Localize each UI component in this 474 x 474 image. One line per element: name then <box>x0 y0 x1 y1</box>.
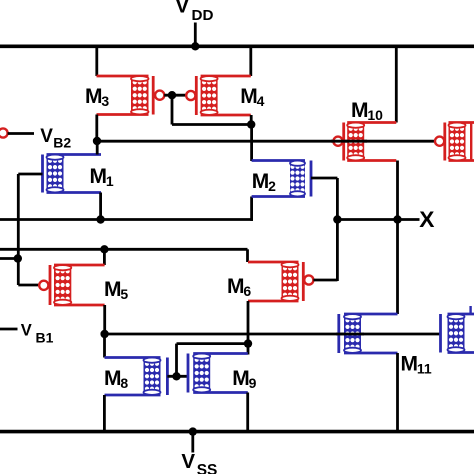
node M3/M4 gate junction <box>168 91 176 99</box>
node M5 source junction <box>100 245 108 253</box>
svg-text:M: M <box>104 367 122 390</box>
terminal V_B2 bubble <box>0 128 8 137</box>
node M6/M9 drain junction <box>244 339 252 347</box>
transistor M1 <box>43 155 102 193</box>
wire M1 gate <box>18 173 42 176</box>
svg-text:M: M <box>232 367 250 390</box>
wire V_DD rail <box>0 44 474 48</box>
wire M1 source down <box>99 193 102 220</box>
svg-text:M: M <box>227 275 245 298</box>
wire M2 gate <box>311 177 337 180</box>
label X <box>419 207 435 232</box>
label M2 <box>252 170 276 194</box>
wire gate line over M10 bubble and cylinder <box>331 140 367 143</box>
svg-text:DD: DD <box>192 7 214 24</box>
svg-text:M: M <box>104 278 122 301</box>
svg-text:4: 4 <box>257 93 265 109</box>
wire M3 source to VDD <box>95 46 98 76</box>
wire M9 source to VSS <box>246 393 249 432</box>
wire M11 source to VSS <box>396 353 399 432</box>
transistor M8 <box>105 358 168 396</box>
transistor M4 <box>186 76 251 115</box>
transistor M3 <box>97 76 165 115</box>
transistor M9 <box>188 354 248 393</box>
wire gate link up <box>175 344 178 377</box>
label M4 <box>240 85 264 109</box>
wire M3/M4 gate drop <box>171 95 174 124</box>
wire M5 source up <box>103 249 106 265</box>
svg-text:V: V <box>40 126 53 147</box>
transistor M12 <box>441 314 474 353</box>
power label V_SS <box>181 450 217 474</box>
wire V_SS rail <box>0 430 474 434</box>
label M10 <box>351 99 383 123</box>
wire M1 drain up <box>96 141 99 155</box>
wire gate link to M9 drain <box>177 342 249 345</box>
svg-text:2: 2 <box>268 178 276 194</box>
input label V_B1 <box>21 321 54 345</box>
node M3/M1 drain junction <box>93 137 101 145</box>
svg-text:9: 9 <box>249 375 257 391</box>
wire M2 source down <box>250 197 253 221</box>
wire V_SS stem <box>191 432 194 453</box>
label M8 <box>104 367 128 391</box>
svg-text:M: M <box>85 85 103 108</box>
svg-text:M: M <box>401 353 419 376</box>
wire M8 source to VSS <box>103 395 106 432</box>
svg-text:3: 3 <box>101 93 109 109</box>
wire cascode source line <box>0 248 248 251</box>
wire M5 gate link <box>18 284 39 287</box>
wire M6 gate <box>313 279 337 282</box>
wire mirror drain line to M12 gate <box>105 333 441 336</box>
node tail junction <box>96 215 104 223</box>
label M1 <box>90 165 114 189</box>
wire M10 drain down to M11 <box>396 161 399 315</box>
wire mirror line over M11 cylinder <box>336 333 364 336</box>
transistor M5 <box>39 265 104 305</box>
label M9 <box>232 367 256 391</box>
wire M4 drain to M2 drain <box>250 125 253 162</box>
svg-text:X: X <box>419 207 435 232</box>
wire M6 source drop <box>246 249 249 262</box>
svg-text:5: 5 <box>120 286 128 302</box>
svg-text:V: V <box>181 450 195 473</box>
transistor M6 <box>248 262 313 301</box>
svg-text:M: M <box>252 170 269 193</box>
svg-text:6: 6 <box>243 283 251 299</box>
node M2/M6 gate at X <box>333 215 341 223</box>
node M10 drain at X <box>393 215 401 223</box>
wire M6 drain down to M9 <box>247 301 250 355</box>
node M5/M8 drain junction <box>100 330 108 338</box>
svg-text:1: 1 <box>106 173 114 189</box>
wire M4 source to VDD <box>249 46 252 76</box>
svg-text:V: V <box>21 321 32 339</box>
wire M2/M6 gate vertical <box>336 178 339 281</box>
label M5 <box>104 278 128 302</box>
svg-text:10: 10 <box>367 107 383 123</box>
wire M5 drain down <box>103 305 106 334</box>
wire X line <box>337 218 419 221</box>
power label V_DD <box>175 0 213 24</box>
wire V_DD stem <box>194 23 197 47</box>
svg-text:M: M <box>90 165 108 188</box>
node V_SS junction <box>189 427 197 435</box>
transistor M7 <box>435 123 474 161</box>
svg-text:8: 8 <box>120 375 128 391</box>
svg-text:V: V <box>175 0 189 18</box>
label M3 <box>85 85 109 109</box>
transistor M11 <box>339 314 398 353</box>
label M6 <box>227 275 251 299</box>
svg-text:M: M <box>351 99 369 122</box>
svg-text:SS: SS <box>197 462 218 474</box>
wire M10 source to VDD <box>395 46 398 122</box>
wire M1/M5 gate vertical <box>17 174 20 285</box>
transistor M10 <box>333 123 396 161</box>
svg-text:B2: B2 <box>53 134 71 150</box>
wire M8/M9 gate link <box>167 375 187 378</box>
wire gate line to M10 and M7 <box>97 140 435 143</box>
svg-text:11: 11 <box>417 361 432 377</box>
wire tail line <box>0 218 253 221</box>
svg-text:B1: B1 <box>36 329 54 345</box>
wire M7 partner cylinder edge <box>470 124 472 161</box>
wire left input line <box>0 257 18 260</box>
input label V_B2 <box>40 126 71 151</box>
svg-text:M: M <box>240 85 257 108</box>
wire V_B2 stub <box>8 132 34 135</box>
wire V_B1 stub <box>0 328 18 331</box>
node M8/M9 gate junction <box>172 372 180 380</box>
wire gate line to M4 drain <box>172 123 251 126</box>
node V_DD junction <box>191 42 199 50</box>
label M11 <box>401 353 432 377</box>
wire M4 drain drop <box>250 115 253 125</box>
node M4 drain junction <box>247 120 255 128</box>
wire M12 drain edge stub <box>469 306 471 315</box>
wire M3 drain drop <box>95 115 98 142</box>
transistor M2 <box>252 161 311 197</box>
node left input junction <box>14 254 22 262</box>
wire M3 gate to node <box>164 94 186 97</box>
wire M8 drain up <box>103 334 106 358</box>
